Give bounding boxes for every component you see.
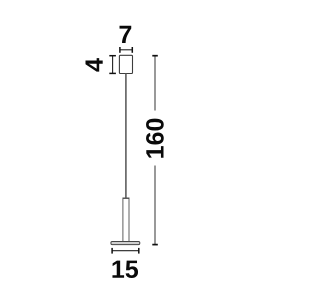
dimension 7 label (120, 26, 132, 43)
dimension 160 label (146, 119, 164, 158)
dimension 15 right tick (138, 248, 140, 254)
dimension 4 bottom tick (109, 72, 116, 74)
base disc (111, 242, 140, 245)
dimension 160 top tick (152, 55, 158, 57)
lamp tube top cap (123, 197, 129, 199)
dimension 4 top tick (109, 55, 116, 57)
dimension 160 line lower segment (154, 166, 156, 245)
lamp tube (123, 198, 129, 242)
dimension 15 line (112, 250, 139, 252)
dimension 7 line (120, 49, 132, 51)
dimension 4 line (112, 56, 114, 74)
canopy (119, 55, 132, 73)
suspension wire (125, 74, 127, 199)
dimension 4 label (86, 58, 103, 71)
dimension 7 right tick (131, 47, 133, 53)
dimension 160 line upper segment (154, 56, 156, 111)
dimension 7 left tick (119, 47, 121, 53)
dimension 160 bottom tick (152, 244, 158, 246)
dimension 15 label (112, 261, 138, 278)
dimension 15 left tick (111, 248, 113, 254)
